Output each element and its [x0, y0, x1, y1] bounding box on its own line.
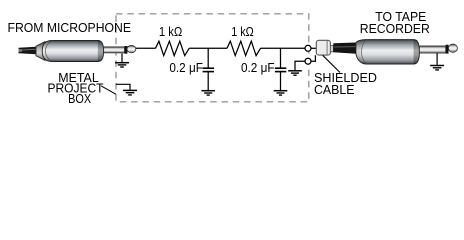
wire R2 to output terminal [261, 47, 306, 49]
tape plug body [356, 40, 420, 64]
mic plug boot [36, 42, 45, 61]
resistor R2 1 kOhm [227, 41, 261, 55]
label SHIELDED CABLE [314, 71, 377, 97]
node: shield terminal [305, 58, 311, 64]
tape plug ring [446, 45, 449, 54]
mic plug back-cap contour [46, 41, 53, 62]
mic plug body right-end shading [98, 40, 104, 61]
callout line SHIELDED CABLE [323, 55, 340, 72]
cable core stub [19, 49, 22, 51]
mic plug shaft [104, 47, 125, 53]
svg-text:BOX: BOX [68, 92, 92, 106]
cable sheen (right) [334, 46, 356, 48]
tape plug shaft [419, 46, 445, 53]
wire tip to R1 [136, 47, 156, 49]
mic plug tip [127, 45, 136, 52]
ground (input jack sleeve) [121, 53, 123, 62]
wire bottom terminal to jack [311, 55, 316, 61]
metal project box (dashed enclosure) [116, 14, 309, 102]
capacitor C2 bottom lead [280, 72, 282, 90]
wire from box wall to chassis ground [116, 84, 130, 90]
svg-text:0.2 μF: 0.2 μF [241, 61, 275, 75]
svg-text:1 kΩ: 1 kΩ [159, 25, 182, 39]
svg-text:FROM MICROPHONE: FROM MICROPHONE [8, 20, 132, 35]
ground (C1) [201, 91, 215, 95]
capacitor C1 top lead [207, 48, 209, 67]
svg-text:RECORDER: RECORDER [360, 21, 430, 36]
tape plug back-cap shading [356, 40, 366, 64]
mic plug collar [125, 46, 128, 54]
label TO TAPE RECORDER [360, 9, 430, 36]
svg-text:1 kΩ: 1 kΩ [231, 25, 254, 39]
tape plug tip [448, 44, 457, 52]
mic plug body [42, 40, 103, 61]
label METAL PROJECT BOX [48, 71, 104, 106]
output jack face line [326, 41, 328, 55]
ground (C2) [274, 91, 288, 95]
svg-text:0.2 μF: 0.2 μF [169, 61, 203, 75]
microphone cable [19, 47, 37, 55]
wire R1 to R2 [189, 47, 227, 49]
capacitor C1 bottom lead [207, 72, 209, 90]
shielded cable (black) [333, 43, 356, 54]
node: signal terminal [305, 45, 311, 51]
output jack body [316, 40, 330, 55]
svg-text:CABLE: CABLE [314, 83, 355, 97]
cable sheen [19, 49, 36, 50]
wire shield terminal to ground [295, 61, 305, 70]
resistor R1 1 kOhm [156, 41, 190, 55]
ground (metal box chassis) [123, 90, 137, 95]
output jack nub [330, 46, 333, 52]
tape plug body right-end shading [414, 40, 420, 64]
callout line from METAL PROJECT BOX to box wall [101, 86, 116, 95]
ground (shield) [288, 71, 302, 75]
ground (tape plug sleeve) [436, 53, 438, 65]
capacitor C2 plates [275, 68, 286, 71]
wire top terminal to jack [311, 47, 316, 49]
capacitor C2 top lead [280, 48, 282, 67]
capacitor C1 plates [203, 68, 214, 71]
